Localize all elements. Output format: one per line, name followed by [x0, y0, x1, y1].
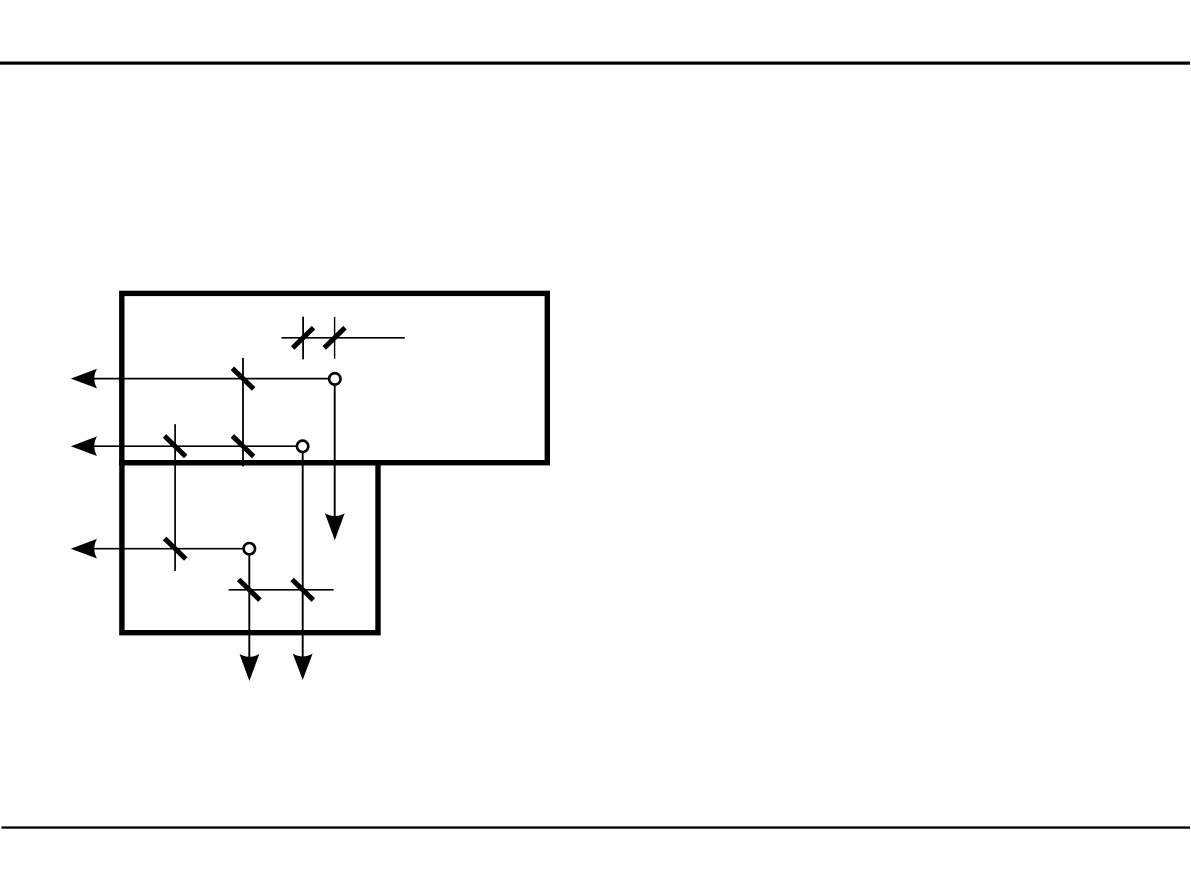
mirror B1 slash — [232, 368, 253, 389]
arrowhead: row 4 output left — [71, 539, 97, 559]
top page rule — [0, 62, 1190, 65]
arrowhead: beam E1 down — [240, 654, 260, 681]
wire: vertical beam C1 to D1 — [174, 424, 176, 571]
wire: mirror A1 vertical tick — [302, 317, 304, 360]
mirror A2 slash — [324, 328, 345, 348]
upper module box — [122, 293, 548, 462]
wire: row 3 horizontal to output arrow — [90, 445, 298, 447]
mirror C2 slash — [232, 436, 253, 457]
arrowhead: row 2 output left — [71, 369, 97, 389]
wire: vertical beam B1 to C2 — [242, 358, 244, 467]
wire: input beam row 1 horizontal — [282, 337, 405, 339]
mirror D1 slash — [165, 538, 186, 559]
mirror E2 slash — [292, 580, 313, 601]
mirror A1 slash — [293, 328, 314, 348]
mirror C1 slash — [165, 436, 186, 457]
bottom page rule — [2, 826, 1191, 828]
node B circle — [329, 373, 340, 384]
wire: vertical beam from node B down — [334, 385, 336, 517]
mirror E1 slash — [239, 580, 260, 601]
node C circle — [297, 441, 308, 452]
wire: vertical beam from node D down through E1 — [248, 554, 250, 658]
arrowhead: beam E2 down — [293, 654, 313, 680]
arrowhead: beam B down — [325, 513, 345, 540]
wire: row 5 horizontal — [229, 589, 334, 591]
wire: row 4 horizontal to output arrow — [90, 548, 245, 550]
lower module box — [122, 463, 378, 633]
wire: mirror A2 vertical tick — [334, 317, 336, 359]
node D circle — [244, 543, 255, 554]
arrowhead: row 3 output left — [71, 436, 97, 456]
wire: row 2 horizontal to output arrow — [90, 378, 330, 380]
wire: vertical beam from node C down through E2 — [302, 452, 304, 658]
